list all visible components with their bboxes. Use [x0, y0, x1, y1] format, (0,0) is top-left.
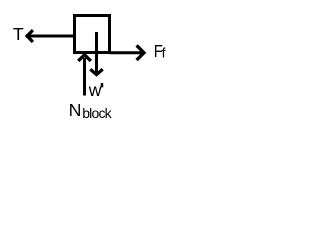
- svg-text:N: N: [69, 100, 82, 120]
- svg-text:w: w: [88, 80, 102, 100]
- svg-text:f: f: [162, 44, 166, 60]
- tension force arrow T (pointing left): [27, 30, 74, 42]
- friction force arrow Ff (pointing right): [110, 45, 145, 60]
- apostrophe of w': [101, 83, 103, 87]
- block (square body): [75, 16, 110, 53]
- svg-text:T: T: [13, 24, 24, 44]
- normal force arrow N (pointing up): [78, 55, 91, 96]
- weight force arrow w' (pointing down): [90, 32, 102, 75]
- svg-text:block: block: [82, 105, 112, 121]
